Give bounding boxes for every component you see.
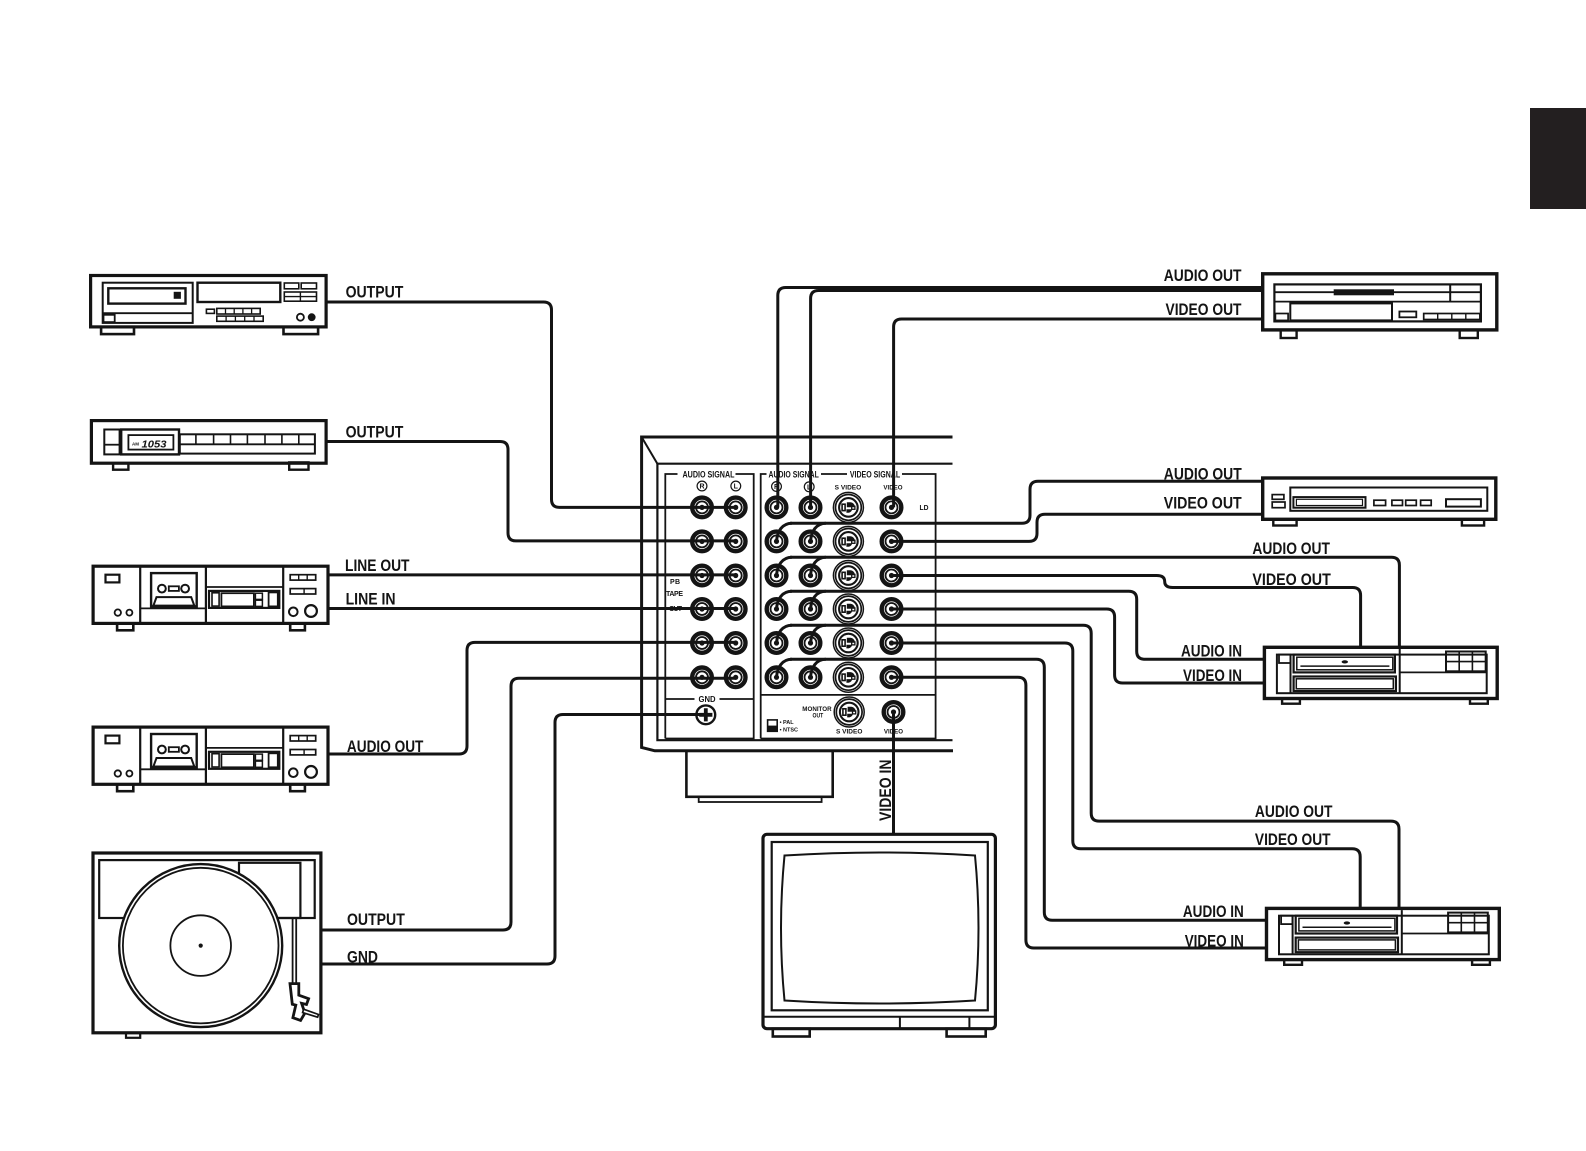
- svg-text:S VIDEO: S VIDEO: [836, 729, 862, 736]
- svg-text:AUDIO IN: AUDIO IN: [1183, 902, 1244, 921]
- MONITOR OUT video jack: [884, 702, 904, 722]
- wire row2 AUDIO OUT to player2: [790, 481, 1264, 523]
- audio jacks row 5 (right section R/L): [767, 633, 787, 653]
- wire row5 AUDIO OUT to VCR2: [790, 625, 1399, 909]
- S-video jack row 1: [833, 492, 863, 522]
- wire row3 AUDIO OUT to VCR1: [790, 557, 1399, 648]
- audio jacks row 3 (right section R/L): [767, 566, 787, 586]
- wire MONITOR OUT video to TV: [892, 712, 895, 835]
- tonearm: [293, 918, 297, 985]
- svg-text:TAPE: TAPE: [666, 591, 683, 598]
- receiver rear panel outline: [642, 437, 953, 751]
- svg-text:LINE OUT: LINE OUT: [345, 556, 410, 575]
- cassette deck 2 (AUDIO OUT): [93, 727, 328, 791]
- wire deck2 AUDIO OUT to row 5: [329, 642, 737, 754]
- monitor out separator: [761, 694, 936, 696]
- svg-text:VIDEO IN: VIDEO IN: [876, 760, 895, 822]
- TV monitor: [763, 834, 995, 1036]
- svg-text:AUDIO OUT: AUDIO OUT: [347, 737, 424, 756]
- AUDIO/VIDEO SIGNAL box (right section): [761, 474, 936, 739]
- wire row2 VIDEO OUT to player2: [892, 514, 1264, 541]
- MONITOR OUT s-video jack: [834, 697, 864, 727]
- cassette deck 1 (TAPE): [93, 566, 328, 630]
- wire deck1 LINE IN from TAPE OUT row 4: [329, 607, 737, 610]
- S-video jack row 3: [833, 561, 863, 591]
- svg-text:AUDIO OUT: AUDIO OUT: [1255, 802, 1333, 821]
- CD player (top left): [91, 276, 327, 335]
- wire LD AUDIO OUT R (top): [778, 288, 1264, 508]
- svg-text:GND: GND: [699, 695, 716, 704]
- audio jacks row 1 (left section R/L): [692, 498, 712, 518]
- wire row6 VIDEO IN to VCR2: [892, 677, 1268, 948]
- svg-text:OUT: OUT: [813, 713, 824, 720]
- PAL/NTSC switch: [768, 720, 778, 731]
- wire turntable GND to GND terminal: [321, 715, 706, 965]
- LD player (top right): [1263, 274, 1497, 338]
- svg-text:AUDIO OUT: AUDIO OUT: [1164, 266, 1242, 285]
- audio jacks row 3 (left section R/L): [692, 566, 712, 586]
- svg-text:OUTPUT: OUTPUT: [347, 910, 405, 929]
- svg-text:OUTPUT: OUTPUT: [346, 422, 404, 441]
- VCR 2: [1267, 908, 1500, 964]
- video jack row 4: [882, 599, 902, 619]
- svg-text:VIDEO OUT: VIDEO OUT: [1166, 300, 1242, 319]
- video jack row 6: [882, 668, 902, 688]
- audio jacks row 1 (right section R/L): [767, 498, 787, 518]
- wire CD OUTPUT to CD/DAT row 1: [327, 302, 737, 507]
- audio jacks row 4 (right section R/L): [767, 599, 787, 619]
- wire tuner OUTPUT to row 2: [325, 442, 737, 541]
- S-video jack row 2: [833, 526, 863, 556]
- svg-text:LINE IN: LINE IN: [346, 590, 396, 609]
- page tab (black corner marker): [1530, 108, 1586, 209]
- svg-text:OUTPUT: OUTPUT: [346, 283, 404, 302]
- audio jacks row 6 (left section R/L): [692, 668, 712, 688]
- audio jacks row 5 (left section R/L): [692, 633, 712, 653]
- svg-text:GND: GND: [347, 948, 378, 967]
- wire row4 audio jack curves: [777, 591, 827, 609]
- audio jacks row 4 (left section R/L): [692, 599, 712, 619]
- svg-text:S VIDEO: S VIDEO: [835, 485, 862, 492]
- svg-text:• NTSC: • NTSC: [780, 728, 798, 734]
- svg-text:VIDEO OUT: VIDEO OUT: [1252, 570, 1331, 589]
- svg-text:VIDEO IN: VIDEO IN: [1185, 932, 1244, 951]
- GND sub-section separator: [665, 698, 753, 700]
- S-video jack row 5: [833, 628, 863, 658]
- svg-text:AUDIO OUT: AUDIO OUT: [1164, 465, 1242, 484]
- video jack row 1: [882, 498, 902, 518]
- svg-text:PB: PB: [670, 579, 680, 586]
- svg-text:1053: 1053: [142, 439, 167, 451]
- audio jacks row 2 (right section R/L): [767, 532, 787, 552]
- wire row2 audio jack curves: [777, 523, 827, 541]
- svg-text:LD: LD: [920, 503, 930, 512]
- svg-text:VIDEO IN: VIDEO IN: [1183, 666, 1242, 685]
- svg-text:AM: AM: [132, 441, 139, 446]
- audio jacks row 6 (right section R/L): [767, 668, 787, 688]
- svg-text:• PAL: • PAL: [780, 720, 795, 726]
- wire row3 VIDEO OUT to VCR1: [892, 576, 1361, 649]
- svg-text:R: R: [699, 484, 704, 491]
- svg-text:L: L: [734, 484, 739, 491]
- audio jacks row 2 (left section R/L): [692, 532, 712, 552]
- S-video jack row 4: [833, 594, 863, 624]
- wire row6 AUDIO IN to VCR2: [790, 659, 1267, 920]
- video disc player (right, second): [1263, 478, 1496, 526]
- wire deck1 LINE OUT to TAPE PB row 3: [329, 573, 737, 576]
- VCR 1: [1264, 647, 1497, 703]
- wire LD VIDEO OUT (top): [894, 319, 1264, 507]
- video jack row 5: [882, 633, 902, 653]
- svg-text:AUDIO OUT: AUDIO OUT: [1252, 539, 1330, 558]
- wire row3 audio jack curves: [777, 557, 827, 575]
- video jack row 3: [882, 566, 902, 586]
- wire row5 audio jack curves: [777, 625, 827, 643]
- video jack row 2: [882, 532, 902, 552]
- GND terminal: [696, 705, 715, 724]
- receiver inner panel: [657, 464, 952, 741]
- svg-text:VIDEO OUT: VIDEO OUT: [1255, 830, 1331, 849]
- wire row5 VIDEO OUT to VCR2: [892, 643, 1361, 909]
- wire LD AUDIO OUT L (top): [811, 291, 1264, 508]
- turntable: [93, 853, 321, 1038]
- wire row4 VIDEO IN to VCR1: [892, 609, 1266, 683]
- AUDIO SIGNAL box (left section): [665, 474, 753, 739]
- svg-text:AUDIO SIGNAL: AUDIO SIGNAL: [683, 469, 735, 479]
- wire row4 AUDIO IN to VCR1: [790, 591, 1265, 659]
- column headers R / L: [697, 481, 707, 491]
- wire row6 audio jack curves: [777, 659, 827, 677]
- receiver top-left bevel: [642, 437, 658, 464]
- receiver bottom foot: [686, 751, 832, 797]
- svg-text:VIDEO OUT: VIDEO OUT: [1164, 494, 1242, 513]
- svg-text:AUDIO IN: AUDIO IN: [1181, 641, 1242, 660]
- tuner: [91, 421, 326, 470]
- S-video jack row 6: [833, 662, 863, 692]
- wire turntable OUTPUT to PHONO row 6: [321, 678, 736, 930]
